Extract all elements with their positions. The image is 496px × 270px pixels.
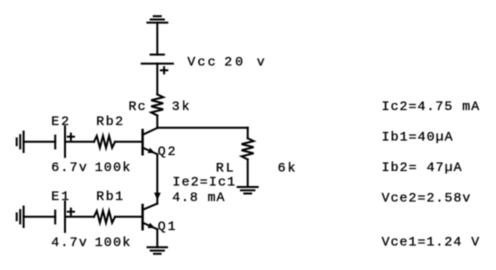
battery Vcc plates — [142, 55, 173, 64]
svg-text:Ic2=4.75 mA: Ic2=4.75 mA — [382, 99, 480, 114]
wire battery E2 to Rb2 — [65, 141, 94, 143]
ground below Q1 — [148, 247, 167, 254]
wire collector node to RL — [157, 127, 247, 129]
svg-text:4.8 mA: 4.8 mA — [172, 190, 224, 205]
svg-text:100k: 100k — [95, 235, 131, 250]
wire ground to battery Vcc — [156, 23, 158, 55]
Q2 collector lead — [143, 128, 158, 135]
ground left of E2 — [17, 132, 24, 152]
svg-text:Rb2: Rb2 — [96, 114, 123, 129]
svg-text:100k: 100k — [95, 160, 131, 175]
svg-text:Vcc: Vcc — [187, 55, 215, 70]
ground left of E1 — [17, 207, 24, 227]
resistor Rc — [151, 94, 163, 115]
wire Q2 emitter down to Q1 collector — [156, 154, 158, 203]
wire Rc to collector node — [156, 116, 158, 128]
Q2 emitter arrowhead — [148, 148, 155, 153]
wire Rb2 to Q2 base — [115, 141, 142, 143]
svg-text:20: 20 — [224, 55, 243, 70]
transistor Q1 base bar — [141, 205, 143, 229]
wire down to RL — [247, 128, 249, 139]
battery E1 plus sign — [68, 209, 74, 215]
wire ground to battery E2 — [24, 141, 56, 143]
resistor RL — [242, 138, 254, 159]
battery E2 plus sign — [68, 134, 74, 140]
wire RL to ground — [247, 159, 249, 187]
arrowhead on wire Ie2 (pointing down) — [154, 193, 161, 201]
Q1 emitter lead — [143, 223, 158, 230]
svg-text:Ib1=40µA: Ib1=40µA — [382, 130, 453, 145]
battery E1 plates — [55, 202, 65, 232]
wire battery E1 to Rb1 — [65, 216, 94, 218]
svg-text:Ie2=Ic1: Ie2=Ic1 — [173, 175, 236, 190]
ground top (Vcc negative, inverted ground) — [147, 16, 167, 22]
svg-text:3k: 3k — [172, 99, 190, 114]
resistor Rb1 — [94, 211, 115, 223]
ground below RL — [238, 187, 258, 194]
battery Vcc plus sign — [161, 67, 167, 73]
svg-text:Q1: Q1 — [158, 219, 176, 234]
svg-text:v: v — [257, 55, 265, 70]
svg-text:Vce2=2.58v: Vce2=2.58v — [382, 191, 471, 206]
svg-text:Q2: Q2 — [158, 144, 176, 159]
svg-text:Vce1=1.24 V: Vce1=1.24 V — [382, 235, 480, 250]
svg-text:Rc: Rc — [129, 99, 146, 114]
svg-text:6k: 6k — [278, 160, 296, 175]
svg-text:RL: RL — [216, 160, 234, 175]
svg-text:4.7v: 4.7v — [51, 235, 87, 250]
Q2 emitter lead — [143, 148, 158, 155]
wire battery to Rc — [156, 64, 158, 95]
Q1 emitter arrowhead — [148, 223, 155, 228]
Q1 collector lead — [143, 204, 158, 210]
wire Rb1 to Q1 base — [115, 216, 142, 218]
battery E2 plates — [55, 127, 65, 157]
svg-text:E2: E2 — [51, 114, 69, 129]
svg-text:6.7v: 6.7v — [51, 160, 87, 175]
transistor Q2 base bar — [141, 130, 143, 154]
wire Q1 emitter to ground — [156, 229, 158, 247]
wire ground to battery E1 — [24, 216, 56, 218]
svg-text:Rb1: Rb1 — [96, 189, 123, 204]
resistor Rb2 — [94, 136, 115, 148]
svg-text:E1: E1 — [51, 189, 69, 204]
svg-text:Ib2= 47µA: Ib2= 47µA — [382, 160, 462, 175]
